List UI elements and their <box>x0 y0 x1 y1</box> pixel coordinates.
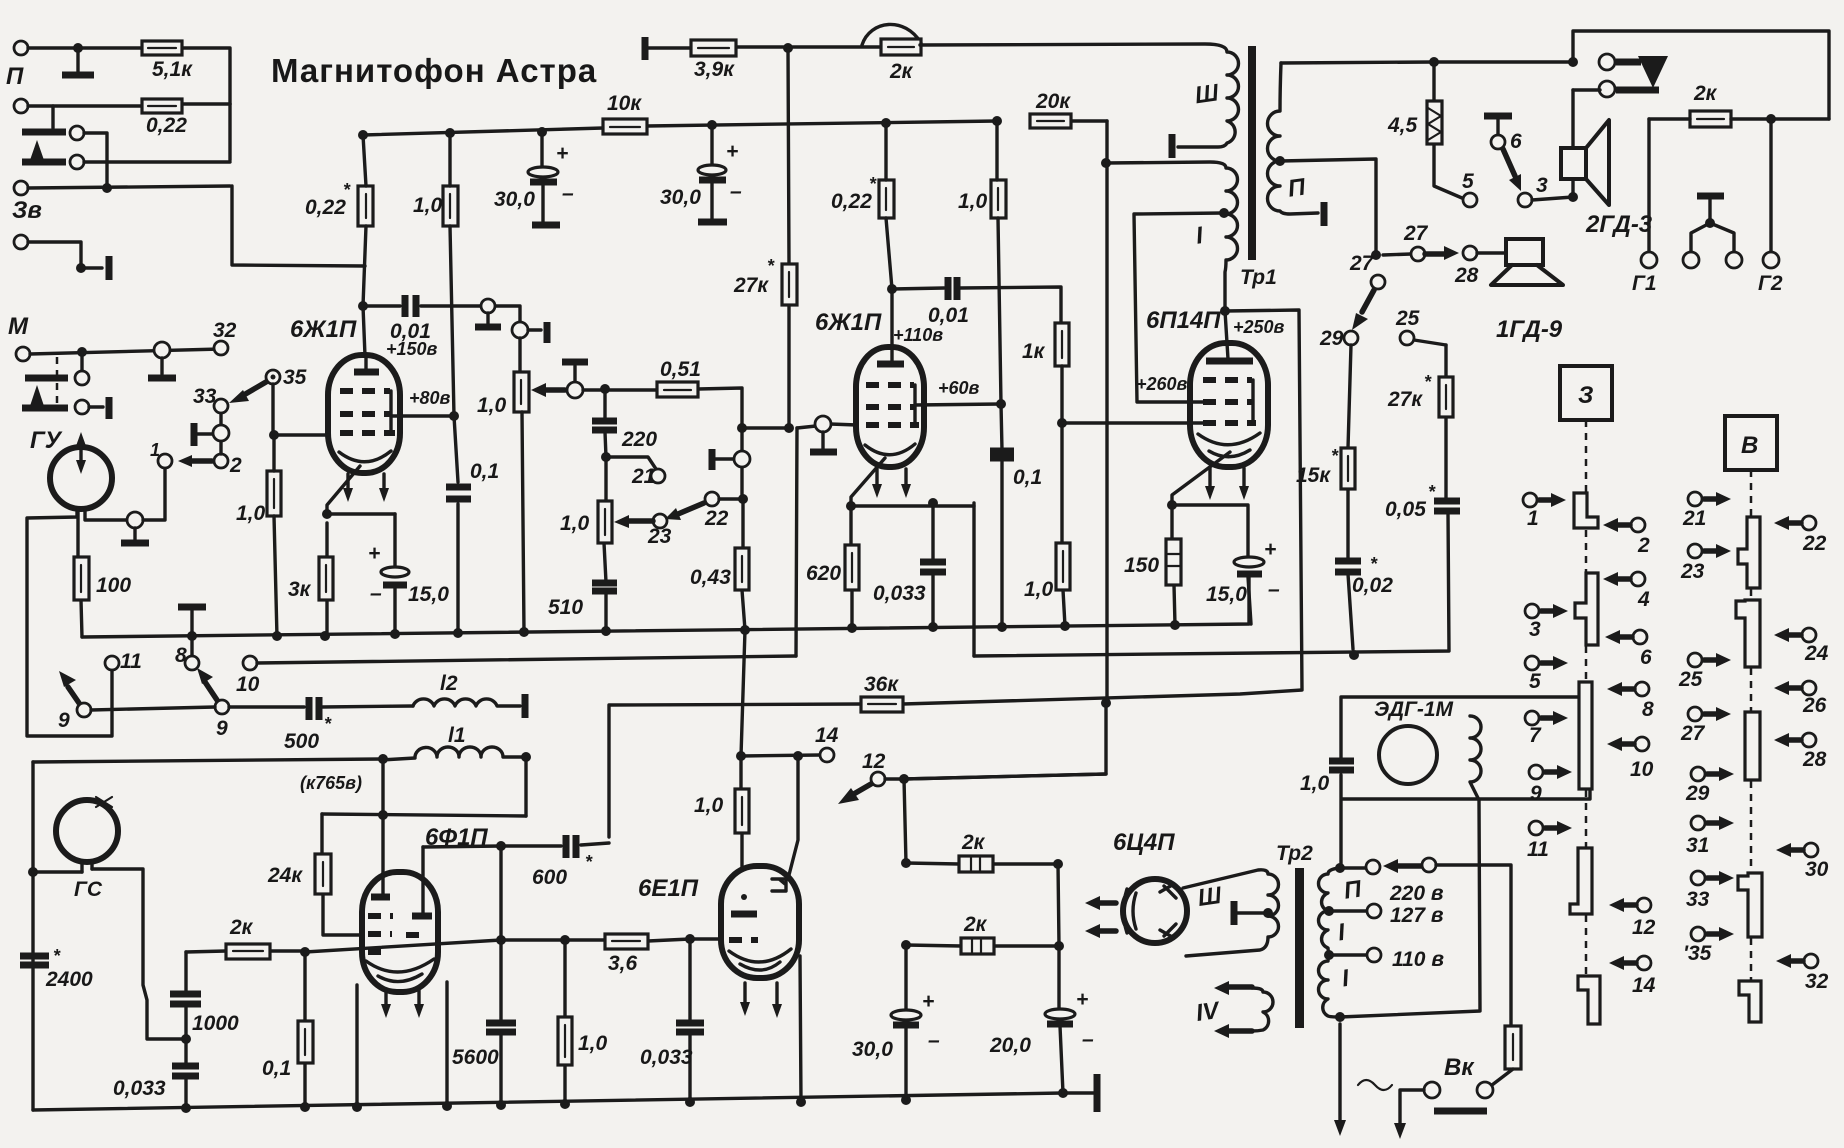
svg-text:+: + <box>726 140 738 163</box>
svg-text:30: 30 <box>1805 858 1829 881</box>
svg-text:6Ж1П: 6Ж1П <box>815 309 882 336</box>
svg-text:4: 4 <box>1637 588 1650 611</box>
svg-text:+80в: +80в <box>409 388 451 408</box>
svg-text:28: 28 <box>1802 748 1827 771</box>
svg-text:0,02: 0,02 <box>1352 574 1393 597</box>
svg-text:12: 12 <box>862 750 886 773</box>
svg-text:26: 26 <box>1802 694 1827 717</box>
svg-text:Тр2: Тр2 <box>1276 842 1313 865</box>
svg-text:–: – <box>1082 1028 1094 1051</box>
svg-text:Зв: Зв <box>12 197 42 224</box>
svg-text:127 в: 127 в <box>1390 904 1444 927</box>
svg-text:33: 33 <box>1686 888 1710 911</box>
svg-text:0,033: 0,033 <box>640 1046 693 1069</box>
svg-text:0,22: 0,22 <box>831 190 872 213</box>
svg-text:1,0: 1,0 <box>560 512 590 535</box>
svg-text:2к: 2к <box>889 60 914 83</box>
svg-text:*: * <box>767 256 775 276</box>
svg-text:*: * <box>1428 482 1436 502</box>
svg-text:500: 500 <box>284 730 319 753</box>
svg-text:1к: 1к <box>1022 340 1046 363</box>
svg-text:–: – <box>562 182 574 205</box>
svg-text:6Ж1П: 6Ж1П <box>290 316 357 343</box>
svg-text:12: 12 <box>1632 916 1656 939</box>
svg-text:220 в: 220 в <box>1389 882 1444 905</box>
svg-text:3,9к: 3,9к <box>694 58 735 81</box>
svg-text:32: 32 <box>1805 970 1829 993</box>
svg-text:1: 1 <box>150 440 160 460</box>
svg-text:6: 6 <box>1640 646 1652 669</box>
svg-text:+150в: +150в <box>386 339 438 359</box>
svg-text:1000: 1000 <box>192 1012 239 1035</box>
svg-text:(к765в): (к765в) <box>300 773 362 793</box>
svg-text:510: 510 <box>548 596 583 619</box>
svg-text:+260в: +260в <box>1136 374 1188 394</box>
svg-text:8: 8 <box>1642 698 1654 721</box>
svg-text:30,0: 30,0 <box>494 188 535 211</box>
svg-text:+60в: +60в <box>938 378 980 398</box>
svg-text:ГС: ГС <box>74 878 103 901</box>
svg-text:Ш: Ш <box>1193 79 1221 109</box>
svg-text:2к: 2к <box>963 913 988 936</box>
svg-text:0,033: 0,033 <box>873 582 926 605</box>
svg-text:*: * <box>324 714 332 734</box>
svg-text:36к: 36к <box>864 673 899 696</box>
svg-text:+110в: +110в <box>893 325 943 345</box>
svg-text:2к: 2к <box>229 916 254 939</box>
svg-text:–: – <box>928 1029 940 1052</box>
svg-text:*: * <box>869 174 877 194</box>
svg-text:22: 22 <box>704 507 729 530</box>
svg-text:1,0: 1,0 <box>958 190 988 213</box>
svg-text:9: 9 <box>58 709 70 732</box>
svg-text:15,0: 15,0 <box>1206 583 1247 606</box>
svg-text:Магнитофон Астра: Магнитофон Астра <box>271 52 597 89</box>
svg-text:Ш: Ш <box>1196 882 1224 912</box>
svg-text:1,0: 1,0 <box>694 794 724 817</box>
svg-text:20к: 20к <box>1035 90 1071 113</box>
svg-text:Вк: Вк <box>1444 1054 1475 1081</box>
svg-text:9: 9 <box>216 717 228 740</box>
svg-text:Г1: Г1 <box>1632 272 1657 295</box>
svg-text:Г2: Г2 <box>1758 272 1783 295</box>
svg-text:2ГД-3: 2ГД-3 <box>1585 211 1653 238</box>
svg-text:*: * <box>343 180 351 200</box>
svg-text:3: 3 <box>1536 174 1548 197</box>
svg-text:6Е1П: 6Е1П <box>638 875 699 902</box>
svg-text:П: П <box>6 63 24 90</box>
svg-text:2к: 2к <box>961 831 986 854</box>
svg-text:+: + <box>556 142 568 165</box>
svg-text:25: 25 <box>1678 668 1703 691</box>
svg-text:+: + <box>1076 988 1088 1011</box>
svg-text:3: 3 <box>1529 618 1541 641</box>
svg-text:5,1к: 5,1к <box>152 58 193 81</box>
svg-text:ЭДГ-1М: ЭДГ-1М <box>1374 698 1454 721</box>
svg-text:*: * <box>585 852 593 872</box>
svg-text:*: * <box>1424 372 1432 392</box>
svg-text:150: 150 <box>1124 554 1159 577</box>
svg-text:10: 10 <box>236 673 260 696</box>
svg-text:14: 14 <box>1632 974 1656 997</box>
svg-text:9: 9 <box>1530 782 1542 805</box>
svg-text:0,22: 0,22 <box>146 114 187 137</box>
svg-text:0,033: 0,033 <box>113 1077 166 1100</box>
svg-text:+: + <box>1264 538 1276 561</box>
svg-text:10: 10 <box>1630 758 1654 781</box>
svg-text:1,0: 1,0 <box>578 1032 608 1055</box>
svg-text:l2: l2 <box>440 672 458 695</box>
svg-text:27: 27 <box>1403 222 1429 245</box>
svg-text:110 в: 110 в <box>1392 948 1444 971</box>
svg-text:22: 22 <box>1802 532 1827 555</box>
svg-text:11: 11 <box>1527 838 1549 861</box>
svg-text:l1: l1 <box>448 724 466 747</box>
svg-text:0,43: 0,43 <box>690 566 731 589</box>
svg-text:27к: 27к <box>733 274 769 297</box>
svg-text:–: – <box>1268 578 1280 601</box>
svg-text:В: В <box>1741 432 1758 459</box>
svg-text:'35: '35 <box>1683 942 1712 965</box>
svg-text:620: 620 <box>806 562 841 585</box>
svg-text:10к: 10к <box>607 92 642 115</box>
svg-text:ГУ: ГУ <box>30 427 63 454</box>
svg-text:1: 1 <box>1527 507 1539 530</box>
svg-text:6Ц4П: 6Ц4П <box>1113 829 1175 856</box>
svg-text:*: * <box>53 946 61 966</box>
svg-text:3,6: 3,6 <box>608 952 638 975</box>
svg-text:30,0: 30,0 <box>852 1038 893 1061</box>
svg-text:100: 100 <box>96 574 131 597</box>
svg-text:+: + <box>368 542 380 565</box>
svg-text:5600: 5600 <box>452 1046 499 1069</box>
svg-text:Тр1: Тр1 <box>1240 266 1277 289</box>
svg-text:23: 23 <box>1680 560 1705 583</box>
svg-text:28: 28 <box>1454 264 1479 287</box>
svg-text:24к: 24к <box>267 864 303 887</box>
svg-text:4,5: 4,5 <box>1387 114 1418 137</box>
svg-text:0,1: 0,1 <box>470 460 499 483</box>
svg-text:2400: 2400 <box>45 968 93 991</box>
svg-text:14: 14 <box>815 724 839 747</box>
svg-text:7: 7 <box>1529 724 1542 747</box>
svg-text:–: – <box>370 582 382 605</box>
svg-text:31: 31 <box>1686 834 1709 857</box>
svg-text:2к: 2к <box>1693 82 1718 105</box>
svg-text:6П14П: 6П14П <box>1146 307 1221 334</box>
svg-text:29: 29 <box>1319 327 1344 350</box>
svg-text:1,0: 1,0 <box>1300 772 1330 795</box>
svg-text:2: 2 <box>229 454 242 477</box>
svg-text:30,0: 30,0 <box>660 186 701 209</box>
svg-text:32: 32 <box>213 319 237 342</box>
svg-text:25: 25 <box>1395 307 1420 330</box>
svg-text:35: 35 <box>283 366 307 389</box>
svg-text:33: 33 <box>193 385 217 408</box>
svg-text:0,05: 0,05 <box>1385 498 1426 521</box>
svg-text:8: 8 <box>175 644 187 667</box>
svg-text:3к: 3к <box>288 578 312 601</box>
svg-text:0,1: 0,1 <box>262 1057 291 1080</box>
svg-text:1,0: 1,0 <box>236 502 266 525</box>
svg-text:+250в: +250в <box>1233 317 1285 337</box>
svg-text:24: 24 <box>1804 642 1829 665</box>
svg-text:0,1: 0,1 <box>1013 466 1042 489</box>
svg-text:З: З <box>1578 382 1593 409</box>
svg-text:0,01: 0,01 <box>928 304 969 327</box>
svg-text:21: 21 <box>631 465 655 488</box>
svg-text:*: * <box>1370 554 1378 574</box>
svg-text:–: – <box>730 180 742 203</box>
svg-text:27: 27 <box>1680 722 1706 745</box>
svg-text:27: 27 <box>1349 252 1375 275</box>
svg-text:1,0: 1,0 <box>477 394 507 417</box>
svg-text:*: * <box>1331 446 1339 466</box>
svg-text:27к: 27к <box>1387 388 1423 411</box>
svg-text:20,0: 20,0 <box>989 1034 1031 1057</box>
svg-text:2: 2 <box>1637 534 1650 557</box>
svg-text:21: 21 <box>1682 507 1706 530</box>
svg-text:0,51: 0,51 <box>660 358 701 381</box>
svg-text:1,0: 1,0 <box>413 194 443 217</box>
svg-text:220: 220 <box>621 428 657 451</box>
svg-text:600: 600 <box>532 866 567 889</box>
svg-text:1ГД-9: 1ГД-9 <box>1496 316 1563 343</box>
svg-text:11: 11 <box>120 650 142 673</box>
svg-text:5: 5 <box>1529 670 1541 693</box>
svg-text:6: 6 <box>1510 130 1522 153</box>
svg-text:М: М <box>8 313 29 340</box>
svg-text:5: 5 <box>1462 170 1474 193</box>
svg-text:0,22: 0,22 <box>305 196 346 219</box>
svg-text:29: 29 <box>1685 782 1710 805</box>
svg-text:1,0: 1,0 <box>1024 578 1054 601</box>
svg-text:23: 23 <box>647 525 672 548</box>
svg-text:15,0: 15,0 <box>408 583 449 606</box>
svg-text:+: + <box>922 990 934 1013</box>
